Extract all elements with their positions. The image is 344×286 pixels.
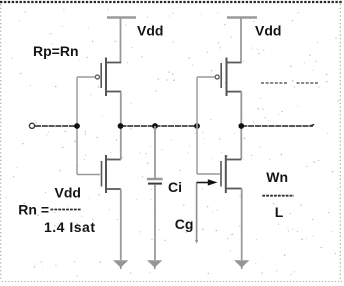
svg-text:L: L	[275, 204, 284, 220]
svg-text:Vdd: Vdd	[55, 185, 81, 201]
svg-text:Vdd: Vdd	[137, 22, 163, 38]
svg-text:Vdd: Vdd	[255, 23, 281, 39]
svg-text:Cg: Cg	[175, 216, 194, 232]
svg-text:Wn: Wn	[266, 169, 288, 185]
svg-text:Rp=Rn: Rp=Rn	[33, 43, 79, 59]
svg-text:Rn =: Rn =	[18, 202, 49, 218]
svg-text:Ci: Ci	[168, 179, 182, 195]
svg-text:1.4 Isat: 1.4 Isat	[44, 219, 95, 235]
